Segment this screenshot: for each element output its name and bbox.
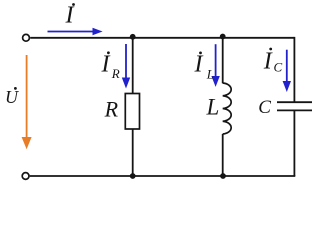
label I-dot (total current) xyxy=(65,3,75,29)
label I_C xyxy=(263,48,283,75)
svg-text:R: R xyxy=(104,97,119,122)
resistor R body xyxy=(125,94,139,130)
svg-text:C: C xyxy=(274,59,283,74)
current arrow I (total) xyxy=(48,28,103,35)
wire: top horizontal bus xyxy=(30,37,294,39)
wire: R branch upper lead xyxy=(132,38,134,94)
svg-text:L: L xyxy=(206,95,220,120)
capacitor C top plate xyxy=(277,101,312,103)
wire: R branch lower lead xyxy=(132,129,134,176)
wire: right vertical (C branch upper lead) xyxy=(293,37,295,102)
current arrow I_L xyxy=(211,44,219,87)
capacitor C bottom plate xyxy=(277,109,312,111)
junction node: bottom of R branch xyxy=(130,173,136,179)
svg-text:I: I xyxy=(194,52,204,78)
junction node: bottom of L branch xyxy=(220,173,226,179)
label I_L xyxy=(194,52,215,82)
junction node: top of L branch xyxy=(220,34,226,40)
svg-text:R: R xyxy=(111,66,120,81)
voltage arrow U (source) xyxy=(22,55,32,149)
junction node: top of R branch xyxy=(130,34,136,40)
current arrow I_C xyxy=(283,50,291,92)
label U-dot (voltage) xyxy=(5,87,19,107)
current arrow I_R xyxy=(122,44,130,89)
top terminal (left input, upper) xyxy=(23,34,30,41)
svg-text:C: C xyxy=(258,97,271,118)
label I_R xyxy=(101,51,120,81)
wire: L branch lower lead xyxy=(222,134,224,176)
svg-text:I: I xyxy=(263,48,273,74)
wire: bottom horizontal bus xyxy=(30,175,296,177)
bottom terminal (left input, lower) xyxy=(22,173,29,180)
svg-text:U: U xyxy=(5,87,19,107)
svg-text:I: I xyxy=(101,51,111,77)
svg-text:L: L xyxy=(206,67,214,82)
inductor L coil xyxy=(223,83,231,134)
wire: L branch upper lead xyxy=(222,38,224,84)
wire: right vertical (C branch lower lead) xyxy=(293,110,295,176)
svg-text:I: I xyxy=(65,3,75,29)
